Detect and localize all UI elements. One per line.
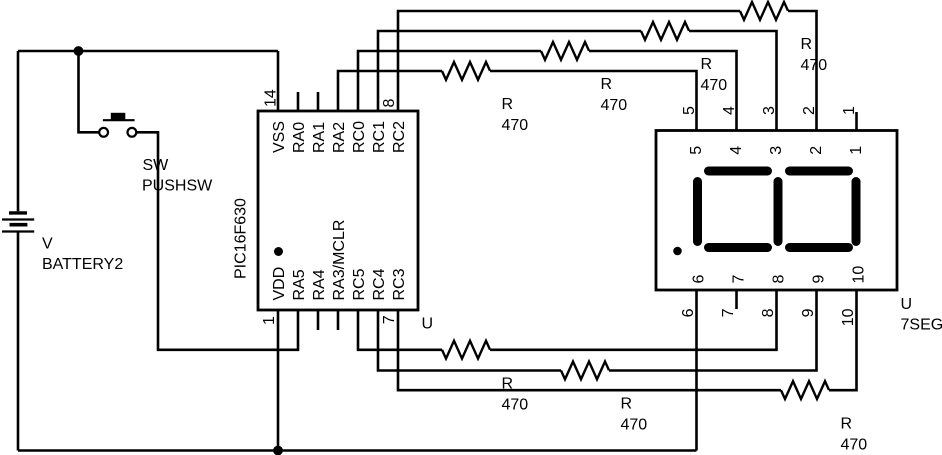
wire RC2 net to pin2: [788, 11, 817, 131]
wire VDD to ground: [277, 310, 280, 451]
pin stub RA3: [337, 310, 340, 330]
svg-text:V: V: [42, 235, 53, 252]
wire switch to RA5: [136, 132, 298, 349]
pin stub 7seg pin1: [855, 112, 858, 131]
wire battery bottom lead: [17, 233, 20, 451]
segment b/c digit2: [852, 182, 861, 242]
svg-text:14: 14: [263, 89, 280, 107]
wire RA2 net: [338, 71, 442, 111]
svg-text:8: 8: [771, 275, 788, 284]
wire RC4 net to pin9: [609, 290, 817, 371]
svg-text:PIC16F630: PIC16F630: [232, 198, 249, 279]
wire RC3 net to pin10: [829, 290, 857, 390]
wire RC1 net to pin3: [689, 31, 777, 131]
svg-text:3: 3: [768, 146, 785, 155]
svg-text:RA3/MCLR: RA3/MCLR: [331, 220, 348, 301]
wire top net battery+ to VSS: [18, 50, 278, 53]
wire RC2 net: [398, 11, 740, 111]
svg-text:6: 6: [691, 275, 708, 284]
svg-text:470: 470: [621, 417, 648, 434]
resistor R 470 (RC3 - seg pin10): [781, 381, 829, 399]
svg-text:RC5: RC5: [351, 268, 368, 300]
wire RC1 net: [378, 31, 641, 111]
svg-text:RA4: RA4: [311, 269, 328, 300]
switch SW PUSHSW: [99, 113, 136, 137]
svg-text:4: 4: [721, 106, 738, 115]
junction top net: [74, 46, 84, 56]
svg-text:7: 7: [381, 315, 398, 324]
svg-text:R: R: [621, 396, 633, 413]
svg-text:5: 5: [688, 146, 705, 155]
resistor R 470 (RC4 - seg pin9): [561, 362, 609, 380]
svg-text:470: 470: [601, 97, 628, 114]
svg-text:VDD: VDD: [271, 267, 288, 301]
wire RC5 net to pin8: [490, 290, 777, 350]
wire RC0 net to pin4: [589, 51, 737, 131]
svg-text:RC4: RC4: [371, 268, 388, 300]
segment f/e digit1: [693, 182, 702, 242]
svg-text:RA1: RA1: [311, 122, 328, 153]
svg-text:U: U: [422, 316, 434, 333]
svg-text:470: 470: [502, 117, 529, 134]
svg-text:U: U: [901, 296, 913, 313]
pin stub RA4: [317, 310, 320, 330]
svg-text:8: 8: [381, 99, 398, 108]
resistor R 470 (RA2 - seg pin5): [442, 62, 490, 80]
svg-text:8: 8: [760, 308, 777, 317]
wire battery top lead: [17, 51, 20, 211]
resistor R 470 (RC1 - seg pin3): [641, 22, 689, 40]
svg-text:470: 470: [502, 397, 529, 414]
svg-text:10: 10: [840, 308, 857, 326]
wire junction to switch: [79, 51, 100, 132]
decimal point: [673, 247, 682, 256]
segment a digit1: [709, 167, 768, 176]
svg-text:5: 5: [681, 106, 698, 115]
svg-text:470: 470: [841, 437, 868, 454]
svg-text:RC3: RC3: [391, 268, 408, 300]
7-segment display U 7SEG body: [656, 131, 897, 291]
resistor R 470 (RC0 - seg pin4): [541, 42, 589, 60]
wire RC0 net: [358, 51, 541, 111]
svg-text:4: 4: [728, 146, 745, 155]
op-amp U1 PIC16F630 chip body: [258, 111, 418, 310]
pin stub RA1: [317, 92, 320, 111]
svg-text:RA2: RA2: [331, 122, 348, 153]
svg-text:R: R: [601, 76, 613, 93]
resistor R 470 (RC2 - seg pin2): [740, 2, 788, 20]
svg-text:RC0: RC0: [351, 121, 368, 153]
wire VSS pin 14: [277, 51, 280, 111]
svg-text:7: 7: [720, 308, 737, 317]
segment b/c digit1: [774, 182, 783, 242]
pin stub 7seg pin7: [735, 290, 738, 309]
svg-text:BATTERY2: BATTERY2: [42, 256, 123, 273]
svg-text:RC1: RC1: [371, 121, 388, 153]
svg-text:9: 9: [811, 275, 828, 284]
svg-text:RA0: RA0: [291, 122, 308, 153]
svg-text:10: 10: [851, 266, 868, 284]
svg-text:R: R: [502, 96, 514, 113]
svg-text:1: 1: [261, 316, 278, 325]
segment a digit2: [790, 167, 849, 176]
svg-text:9: 9: [800, 308, 817, 317]
svg-text:PUSHSW: PUSHSW: [142, 178, 213, 195]
segment d digit1: [709, 243, 768, 252]
svg-text:R: R: [841, 416, 853, 433]
wire ground bus bottom: [18, 449, 697, 452]
pin1 marker dot: [274, 247, 283, 256]
svg-text:VSS: VSS: [271, 121, 288, 153]
wire RC3 net: [398, 310, 781, 390]
svg-text:7: 7: [731, 275, 748, 284]
svg-text:2: 2: [808, 146, 825, 155]
svg-text:470: 470: [801, 57, 828, 74]
svg-text:7SEG: 7SEG: [901, 317, 942, 334]
svg-text:R: R: [701, 56, 713, 73]
wire RC5 net: [358, 310, 442, 350]
svg-text:6: 6: [680, 308, 697, 317]
resistor R 470 (RC5 - seg pin8): [442, 341, 490, 359]
pin stub RA0: [297, 92, 300, 111]
svg-text:RC2: RC2: [391, 121, 408, 153]
svg-text:470: 470: [701, 77, 728, 94]
svg-text:1: 1: [848, 146, 865, 155]
svg-text:SW: SW: [143, 157, 170, 174]
svg-text:1: 1: [841, 106, 858, 115]
junction VDD ground: [273, 446, 283, 455]
segment d digit2: [790, 243, 849, 252]
svg-text:R: R: [801, 36, 813, 53]
wire 7seg pin6 to ground: [695, 290, 698, 451]
svg-text:RA5: RA5: [291, 269, 308, 300]
battery V BATTERY2: [2, 213, 34, 232]
svg-text:3: 3: [761, 106, 778, 115]
wire RC4 net: [378, 310, 561, 371]
svg-text:2: 2: [801, 106, 818, 115]
wire RA2 net to pin5: [490, 71, 697, 131]
